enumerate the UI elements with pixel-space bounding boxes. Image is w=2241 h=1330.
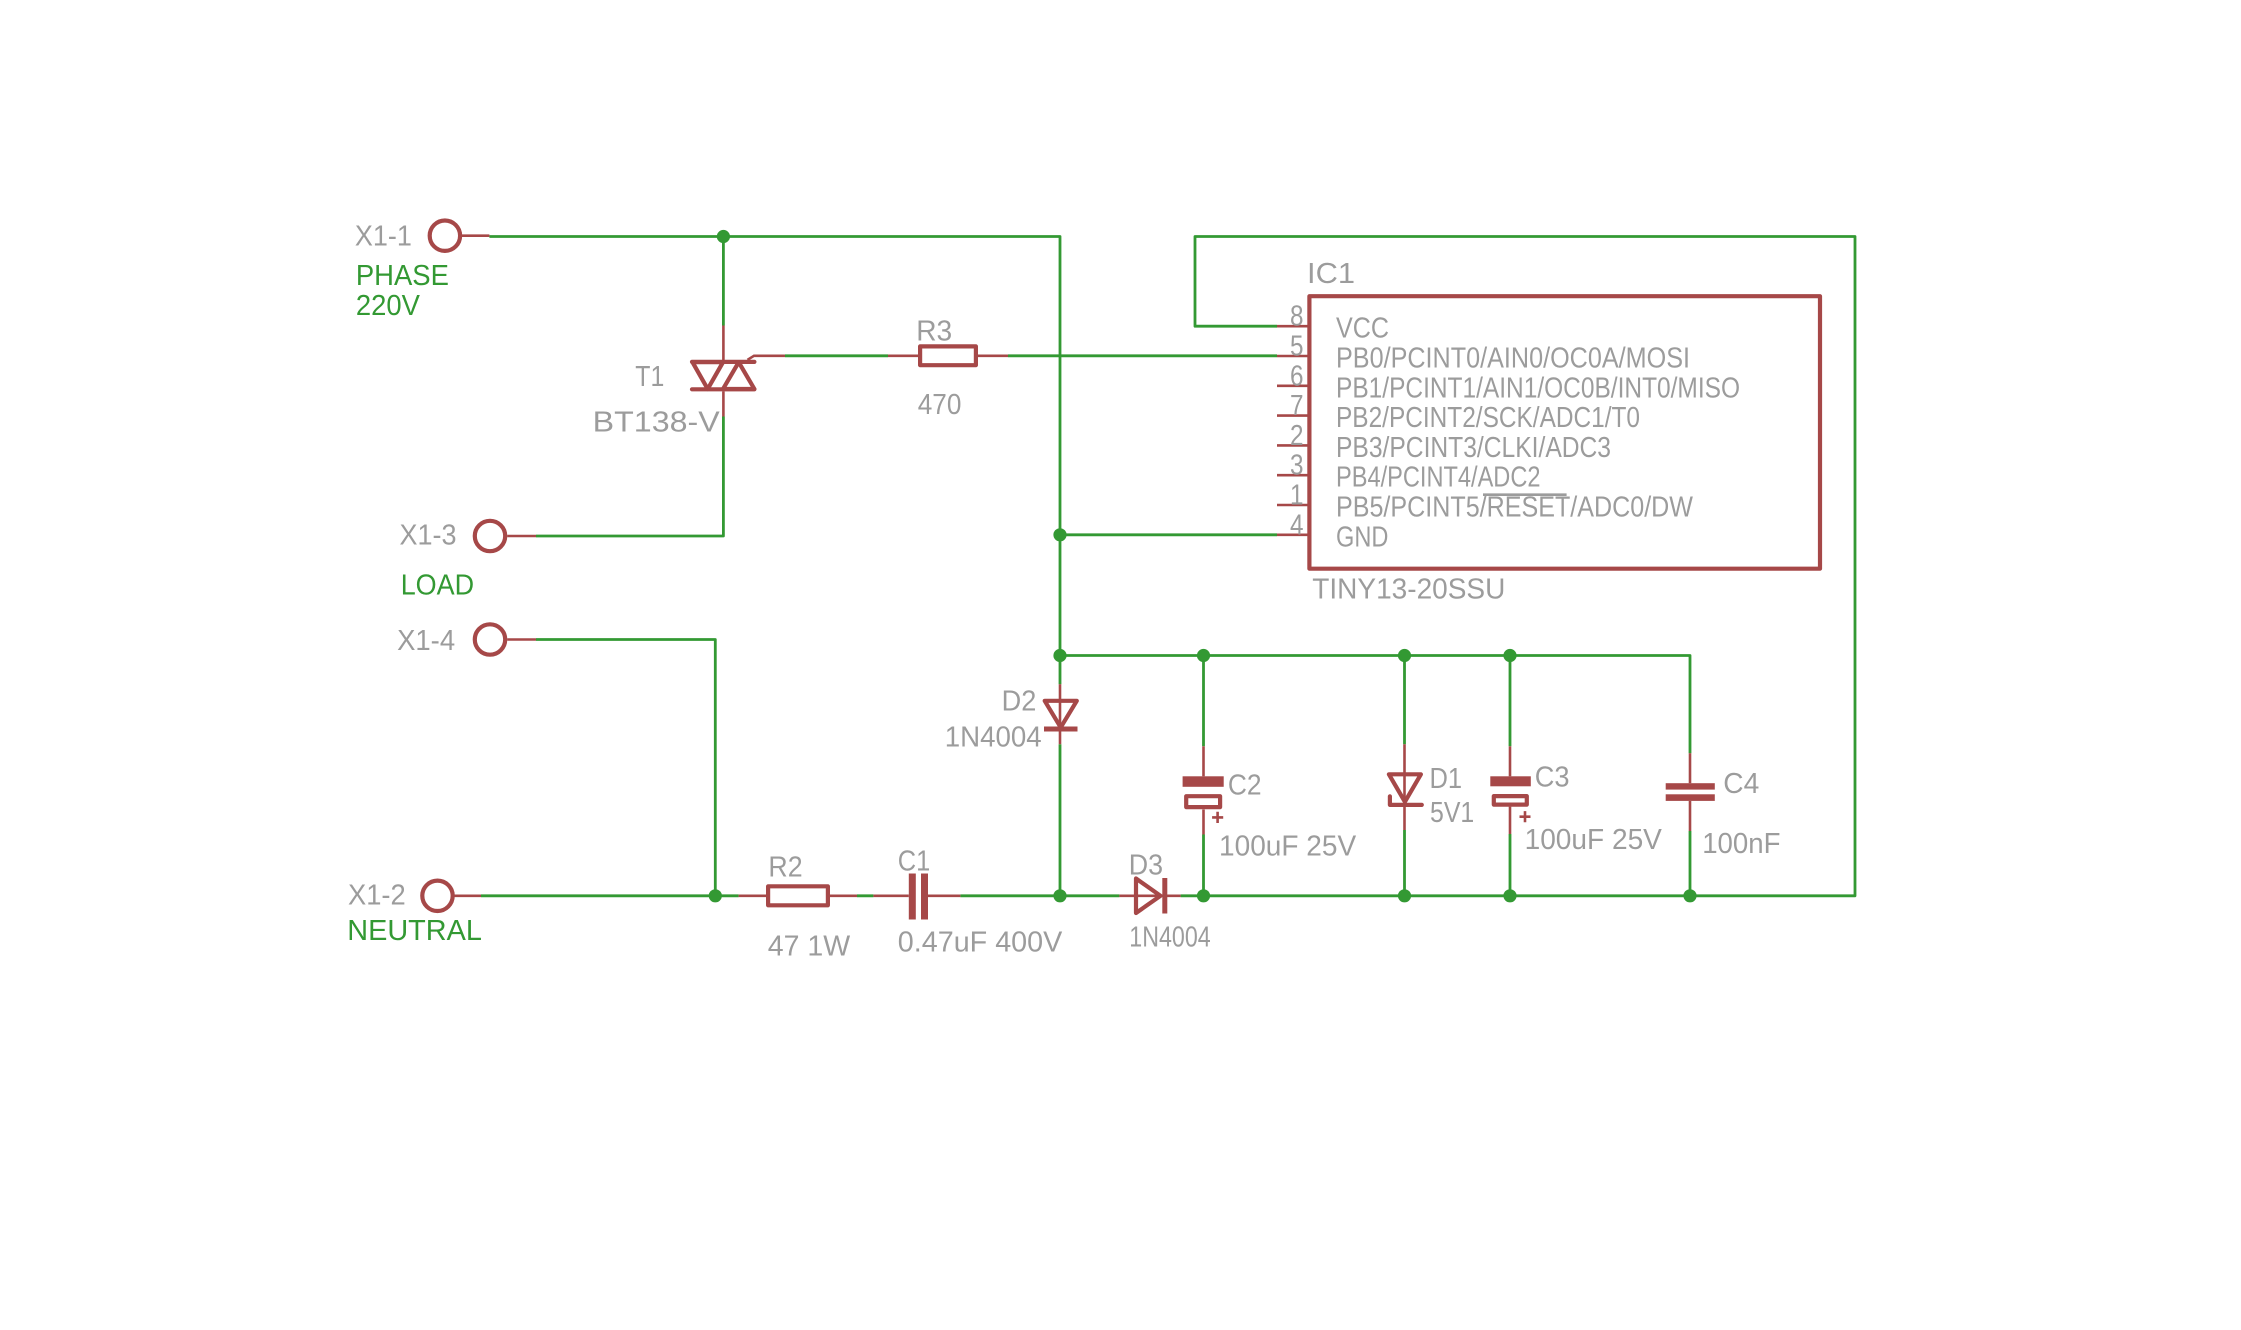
svg-text:R3: R3 <box>916 316 952 348</box>
triac T1 <box>692 326 785 417</box>
svg-text:1N4004: 1N4004 <box>1129 921 1210 953</box>
svg-text:GND: GND <box>1336 521 1388 553</box>
node bottom rail / D1 <box>1398 889 1411 902</box>
pin 6 stub of IC1 <box>1277 384 1308 387</box>
wire bottom rail X1-2 to R2 <box>481 894 739 897</box>
svg-text:47 1W: 47 1W <box>768 930 851 962</box>
svg-text:100nF: 100nF <box>1702 828 1780 860</box>
wire C3 bottom branch <box>1509 834 1512 896</box>
diode D3 <box>1119 878 1180 914</box>
wire T1 MT1 to X1-3 (LOAD net) <box>536 417 723 537</box>
svg-text:C4: C4 <box>1723 768 1759 800</box>
pin 7 stub of IC1 <box>1277 414 1308 417</box>
svg-text:7: 7 <box>1290 390 1304 422</box>
wire T1 MT2 branch from top rail <box>722 237 725 326</box>
pin 8 stub of IC1 <box>1277 325 1308 328</box>
wire GND rail horizontal y=655.5 with corner down to C4 <box>1060 656 1690 754</box>
svg-text:8: 8 <box>1290 301 1304 333</box>
node bottom rail / C4 <box>1683 889 1696 902</box>
node GND rail / C2 <box>1197 649 1210 662</box>
svg-text:PHASE: PHASE <box>356 260 449 292</box>
node GND rail / D1 <box>1398 649 1411 662</box>
wire R3 to IC1 pin 5 <box>1008 354 1277 357</box>
svg-text:1N4004: 1N4004 <box>945 721 1042 753</box>
node top rail / T1 <box>717 230 730 243</box>
wire D3 to VCC bottom rail <box>1181 894 1690 897</box>
svg-text:BT138-V: BT138-V <box>593 406 721 438</box>
wire C3 top branch <box>1509 656 1512 747</box>
wire PHASE top rail X1-1 to trunk and down (PHASE/GND net) <box>489 237 1060 685</box>
svg-text:X1-3: X1-3 <box>400 520 457 552</box>
pin 4 stub of IC1 <box>1277 533 1308 536</box>
svg-text:C3: C3 <box>1535 761 1570 793</box>
node GND rail / trunk <box>1053 649 1066 662</box>
zener diode D1 <box>1389 744 1422 830</box>
svg-text:PB5/PCINT5/RESET/ADC0/DW: PB5/PCINT5/RESET/ADC0/DW <box>1336 492 1694 524</box>
node GND rail / C3 <box>1503 649 1516 662</box>
wire VCC net pin 8 loop and right trunk <box>1195 237 1855 896</box>
svg-text:6: 6 <box>1290 360 1304 392</box>
ic U1 TINY13 box <box>1309 296 1820 569</box>
svg-text:220V: 220V <box>356 290 421 322</box>
svg-text:X1-4: X1-4 <box>397 625 455 657</box>
pin 3 stub of IC1 <box>1277 474 1308 477</box>
resistor R2 <box>739 886 857 905</box>
svg-text:C1: C1 <box>898 846 931 878</box>
svg-text:100uF 25V: 100uF 25V <box>1525 824 1663 856</box>
pin 1 stub of IC1 <box>1277 504 1308 507</box>
svg-text:X1-1: X1-1 <box>355 221 412 253</box>
svg-text:PB2/PCINT2/SCK/ADC1/T0: PB2/PCINT2/SCK/ADC1/T0 <box>1336 402 1640 434</box>
node bottom rail / D2 <box>1053 889 1066 902</box>
svg-text:R2: R2 <box>768 851 802 883</box>
svg-text:2: 2 <box>1290 420 1304 452</box>
connector X1-3 <box>475 521 536 551</box>
svg-text:T1: T1 <box>635 361 664 393</box>
svg-text:X1-2: X1-2 <box>348 880 406 912</box>
svg-text:D3: D3 <box>1129 849 1163 881</box>
wire C4 bottom branch <box>1689 831 1692 896</box>
svg-text:PB0/PCINT0/AIN0/OC0A/MOSI: PB0/PCINT0/AIN0/OC0A/MOSI <box>1336 343 1690 375</box>
pin 2 stub of IC1 <box>1277 444 1308 447</box>
svg-text:PB3/PCINT3/CLKI/ADC3: PB3/PCINT3/CLKI/ADC3 <box>1336 432 1611 464</box>
svg-text:D2: D2 <box>1002 686 1037 718</box>
wire X1-4 to bottom rail <box>536 640 715 896</box>
wire T1 gate to R3 <box>785 354 888 357</box>
node bottom rail / C2 <box>1197 889 1210 902</box>
svg-text:470: 470 <box>918 389 962 421</box>
svg-text:LOAD: LOAD <box>401 570 474 602</box>
svg-text:PB4/PCINT4/ADC2: PB4/PCINT4/ADC2 <box>1336 462 1541 494</box>
svg-text:5V1: 5V1 <box>1430 797 1474 829</box>
svg-text:4: 4 <box>1290 509 1304 541</box>
capacitor C1 <box>873 874 960 920</box>
wire R2 to C1 <box>857 894 873 897</box>
svg-text:0.47uF 400V: 0.47uF 400V <box>898 927 1063 959</box>
node pin4 / trunk <box>1053 528 1066 541</box>
capacitor C3 <box>1490 746 1531 834</box>
svg-text:100uF 25V: 100uF 25V <box>1219 831 1357 863</box>
svg-text:TINY13-20SSU: TINY13-20SSU <box>1312 574 1505 606</box>
RESET overline <box>1483 493 1567 496</box>
capacitor C2 <box>1183 746 1224 834</box>
node bottom rail / X1-4 <box>709 889 722 902</box>
wire D1 top branch <box>1403 656 1406 745</box>
connector X1-1 <box>430 221 490 251</box>
wire D2 bottom branch <box>1059 744 1062 896</box>
connector X1-2 <box>422 881 481 911</box>
capacitor C4 <box>1666 753 1715 831</box>
wire C2 bottom branch <box>1202 835 1205 896</box>
svg-text:5: 5 <box>1290 331 1304 363</box>
svg-text:D1: D1 <box>1430 763 1463 795</box>
diode D2 <box>1044 684 1078 744</box>
wire C1 to D3 <box>960 894 1119 897</box>
svg-text:VCC: VCC <box>1336 313 1389 345</box>
resistor R3 <box>888 346 1008 365</box>
wire D1 bottom branch <box>1403 830 1406 896</box>
pin 5 stub of IC1 <box>1277 355 1308 358</box>
svg-text:1: 1 <box>1290 480 1304 512</box>
node bottom rail / C3 <box>1503 889 1516 902</box>
svg-text:PB1/PCINT1/AIN1/OC0B/INT0/MISO: PB1/PCINT1/AIN1/OC0B/INT0/MISO <box>1336 372 1740 404</box>
wire C2 top branch <box>1202 656 1205 747</box>
svg-text:3: 3 <box>1290 450 1304 482</box>
svg-text:IC1: IC1 <box>1307 258 1355 290</box>
svg-text:C2: C2 <box>1228 770 1262 802</box>
connector X1-4 <box>475 624 536 654</box>
svg-text:NEUTRAL: NEUTRAL <box>347 915 482 947</box>
wire IC1 pin 4 GND to trunk <box>1060 533 1277 536</box>
